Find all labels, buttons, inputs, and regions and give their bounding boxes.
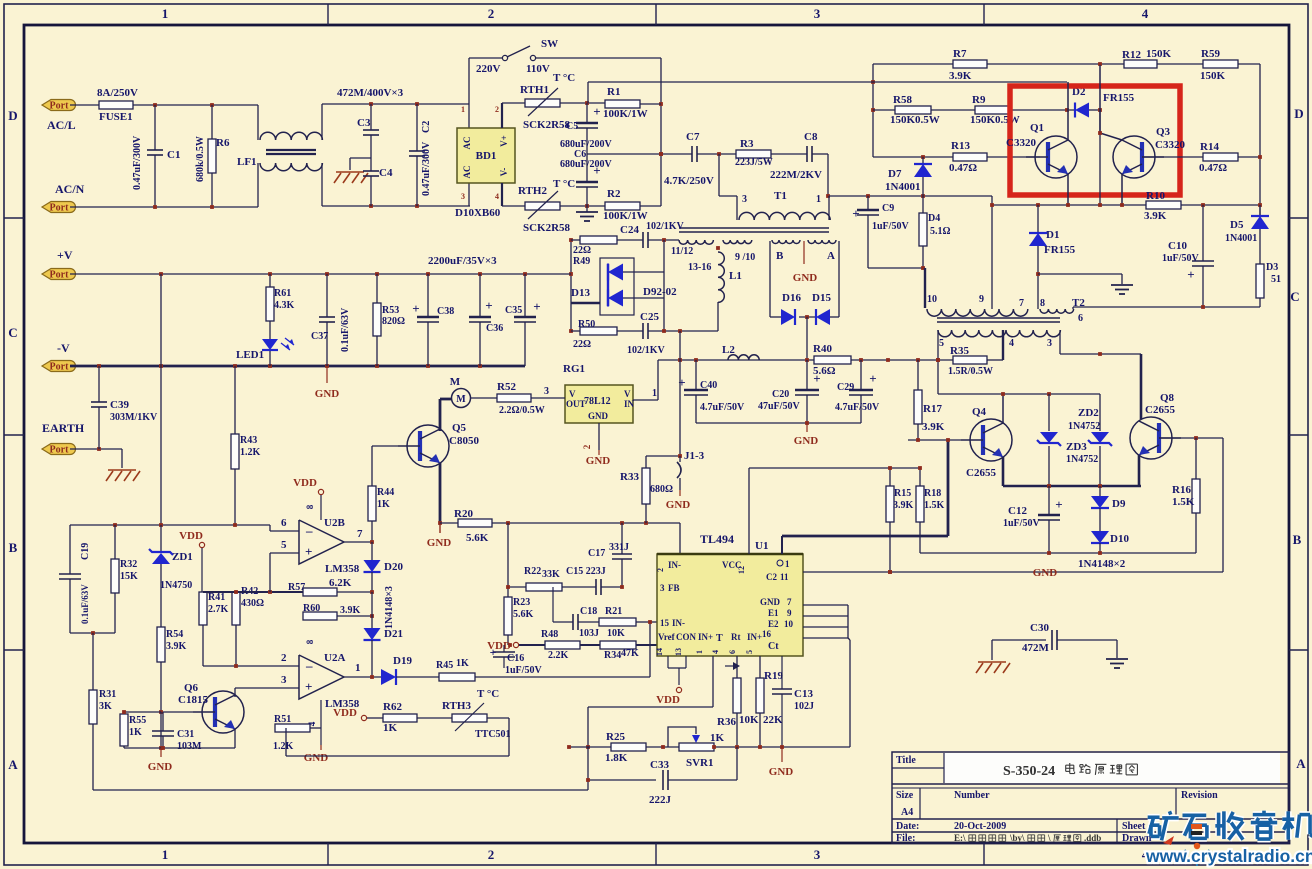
svg-text:680Ω: 680Ω: [650, 484, 673, 495]
svg-text:C20: C20: [772, 389, 789, 400]
svg-text:1.2K: 1.2K: [240, 447, 261, 458]
wire RG1 VIN pin1: [633, 399, 658, 401]
transformer T1 core: [679, 227, 829, 229]
resistor R49: [571, 239, 580, 241]
svg-text:R19: R19: [764, 670, 783, 682]
svg-text:C36: C36: [486, 323, 503, 334]
output rail y360: [658, 359, 953, 361]
svg-text:AC/N: AC/N: [55, 182, 85, 196]
svg-text:223J/5W: 223J/5W: [735, 157, 773, 168]
capacitor C20: [806, 360, 808, 390]
svg-text:C35: C35: [505, 305, 522, 316]
svg-text:16: 16: [762, 629, 772, 639]
transformer T2 primary winding 10-9-7: [927, 309, 1028, 316]
svg-text:IN-: IN-: [668, 560, 681, 570]
emitter row y486 thick: [1003, 485, 1141, 488]
svg-text:3: 3: [742, 194, 747, 205]
U2A pin2 wire: [203, 665, 299, 667]
svg-text:1.8K: 1.8K: [605, 752, 628, 764]
svg-text:R45: R45: [436, 660, 453, 671]
wire R45 to TL494 pin15: [475, 676, 650, 678]
margin tick marks: [327, 4, 329, 25]
transformer T2 primary winding 8: [1040, 309, 1074, 313]
svg-text:FUSE1: FUSE1: [99, 111, 133, 123]
capacitor C31: [162, 712, 164, 731]
svg-text:D10: D10: [1110, 533, 1129, 545]
svg-text:RTH2: RTH2: [518, 185, 547, 197]
VDD node above R41: [199, 542, 204, 547]
svg-text:C5: C5: [566, 121, 578, 132]
resistor D4: [919, 213, 927, 246]
svg-text:U1: U1: [755, 540, 768, 552]
svg-text:A4: A4: [901, 807, 913, 818]
svg-text:J1-3: J1-3: [684, 450, 705, 462]
wire R34 to TL494: [636, 644, 657, 646]
svg-text:R41: R41: [208, 592, 225, 603]
svg-text:C38: C38: [437, 306, 454, 317]
svg-text:+: +: [869, 371, 876, 386]
svg-text:L1: L1: [729, 270, 742, 282]
capacitor C25: [617, 330, 643, 332]
svg-text:FR155: FR155: [1103, 92, 1135, 104]
svg-text:1uF/50V: 1uF/50V: [1003, 518, 1040, 529]
resistor R51: [275, 724, 310, 732]
svg-text:–: –: [305, 658, 313, 673]
svg-text:1: 1: [162, 6, 169, 21]
U2B pin5 wire: [270, 552, 299, 554]
resistor R23: [504, 597, 512, 635]
wire pin6 link up to C19 rail: [269, 525, 271, 531]
common-mode choke LF1: [257, 105, 259, 140]
transformer T1 secondary winding 9/10: [723, 240, 752, 244]
svg-text:R3: R3: [740, 138, 754, 150]
svg-text:Rt: Rt: [731, 632, 741, 642]
svg-text:4: 4: [711, 650, 720, 654]
transistor Q4: [970, 419, 1012, 461]
svg-text:C: C: [1290, 289, 1299, 304]
svg-text:11: 11: [780, 572, 789, 582]
C19 top rail: [70, 524, 270, 526]
svg-text:R54: R54: [166, 629, 183, 640]
earth ground at C3/C4 node: [350, 157, 371, 159]
wire R58 to R9: [931, 109, 975, 111]
svg-text:C13: C13: [794, 688, 813, 700]
svg-text:Q6: Q6: [184, 682, 199, 694]
wire R7 to R12 row: [987, 63, 1124, 65]
wire BD1 V+ pin: [501, 103, 503, 128]
feedback bottom wire: [286, 755, 509, 757]
capacitor C12: [1048, 486, 1050, 515]
svg-text:E2: E2: [768, 619, 779, 629]
title block grid lines: [892, 783, 1289, 785]
resistor R41: [199, 592, 207, 625]
svg-text:2200uF/35V×3: 2200uF/35V×3: [428, 255, 497, 267]
svg-text:2: 2: [582, 444, 592, 449]
watermark logo kuang-shi-shou-yin-ji: [1148, 814, 1160, 821]
Q6 collector wire: [234, 688, 236, 697]
wire Q3 base to R14: [1142, 156, 1203, 158]
svg-text:E:\: E:\: [954, 833, 966, 843]
svg-text:GND: GND: [769, 766, 794, 778]
svg-text:1.5K: 1.5K: [924, 500, 945, 511]
svg-text:222J: 222J: [649, 794, 672, 806]
svg-text:7: 7: [357, 528, 363, 540]
svg-text:R50: R50: [578, 319, 595, 330]
svg-text:C3: C3: [357, 117, 371, 129]
resistor R15: [889, 468, 891, 486]
TL494 right pin stubs to bus: [803, 604, 848, 606]
wire D3/C10 bottom row: [1073, 306, 1260, 308]
capacitor C6: [586, 154, 588, 182]
resistor R2: [605, 202, 640, 210]
port EARTH: [42, 444, 76, 455]
svg-text:1K: 1K: [710, 732, 725, 744]
capacitor C5: [586, 103, 588, 123]
svg-text:3: 3: [1047, 338, 1052, 349]
svg-text:LM358: LM358: [325, 563, 360, 575]
svg-text:5: 5: [281, 539, 287, 551]
svg-text:+: +: [1187, 267, 1194, 282]
D13 common cathode bar link: [607, 264, 609, 306]
-V rail wire thick: [70, 365, 525, 368]
svg-text:T2: T2: [1072, 297, 1085, 309]
ground label under -V rail: [326, 366, 328, 383]
svg-text:9: 9: [787, 608, 792, 618]
svg-text:Vref: Vref: [658, 632, 676, 642]
svg-text:R23: R23: [513, 597, 530, 608]
svg-text:331J: 331J: [609, 542, 629, 553]
transformer T2 core: [937, 317, 1060, 319]
resistor R7: [873, 63, 953, 65]
wire R57 to diode chain: [337, 591, 372, 593]
VDD to R62: [361, 715, 366, 720]
svg-text:0.47Ω: 0.47Ω: [1199, 162, 1227, 174]
R25 row: [569, 746, 611, 748]
svg-text:B: B: [9, 540, 18, 555]
svg-text:C7: C7: [686, 131, 700, 143]
wire M to R52: [470, 397, 497, 399]
svg-text:33K: 33K: [542, 569, 560, 580]
svg-text:472M: 472M: [1022, 642, 1050, 654]
wire D7 chain to T2 pin10: [868, 267, 925, 269]
svg-text:GND: GND: [315, 388, 340, 400]
port AC/L: [42, 100, 76, 111]
capacitor C39: [98, 366, 100, 402]
svg-text:2: 2: [488, 847, 495, 862]
svg-text:103M: 103M: [177, 741, 202, 752]
svg-text:TL494: TL494: [700, 532, 734, 546]
svg-text:ZD3: ZD3: [1066, 441, 1087, 453]
TL494 pin4 wire: [736, 656, 738, 678]
wire R14 to vertical: [1238, 156, 1260, 158]
resistor R25: [611, 743, 646, 751]
svg-text:C4: C4: [379, 167, 393, 179]
svg-text:1K: 1K: [129, 727, 142, 738]
emitter row y205: [992, 204, 1146, 206]
svg-text:+: +: [593, 163, 600, 178]
svg-text:SCK2R58: SCK2R58: [523, 119, 571, 131]
resistor R32: [114, 525, 116, 559]
svg-text:D15: D15: [812, 292, 831, 304]
wire RTH2 to R2 row: [560, 205, 605, 207]
capacitor C1: [154, 105, 156, 150]
wire R13 to Q1 base: [987, 156, 1040, 158]
capacitor C8: [771, 153, 807, 155]
svg-text:C29: C29: [837, 382, 854, 393]
svg-text:1: 1: [355, 662, 361, 674]
svg-text:1uF/50V: 1uF/50V: [505, 665, 542, 676]
svg-text:680k/0.5W: 680k/0.5W: [195, 136, 206, 182]
resistor R9: [975, 106, 1009, 114]
capacitor C9: [867, 196, 869, 210]
svg-text:R34: R34: [604, 650, 621, 661]
svg-text:V: V: [624, 389, 631, 399]
svg-text:4.7K/250V: 4.7K/250V: [664, 175, 714, 187]
fuse FUSE1: [99, 101, 133, 109]
svg-text:FB: FB: [668, 583, 680, 593]
svg-text:R52: R52: [497, 381, 516, 393]
svg-text:680uF/200V: 680uF/200V: [560, 159, 612, 170]
inductor L2: [728, 355, 759, 360]
U2B VDD pin8: [318, 489, 323, 494]
svg-text:\: \: [1047, 833, 1051, 843]
dual diode D13 box: [600, 258, 634, 315]
thick row R41-R57: [203, 591, 303, 593]
svg-text:LF1: LF1: [237, 156, 257, 168]
svg-text:C8050: C8050: [449, 435, 479, 447]
resistor R21: [599, 618, 636, 626]
diode D9: [1099, 486, 1101, 496]
svg-text:D9: D9: [1112, 498, 1126, 510]
watermark orange accents: [1191, 824, 1202, 829]
R15 bottom link: [889, 522, 891, 572]
svg-text:VDD: VDD: [293, 477, 317, 489]
connector J1-3: [679, 331, 681, 456]
svg-text:U2B: U2B: [324, 517, 345, 529]
resistor R61: [269, 274, 271, 287]
wire D1 anode to chassis ground: [1036, 272, 1040, 276]
wire R10 to D5 node: [1181, 204, 1260, 206]
svg-text:C40: C40: [700, 380, 717, 391]
svg-text:R9: R9: [972, 94, 986, 106]
resistor R14: [1203, 153, 1238, 161]
TL494 pin13/14 wires to VDD: [667, 656, 669, 668]
wire R2 to 110V tap: [640, 205, 661, 207]
svg-text:GND: GND: [793, 272, 818, 284]
capacitor C33: [588, 779, 656, 781]
svg-text:www.crystalradio.cn: www.crystalradio.cn: [1145, 846, 1312, 866]
svg-text:SVR1: SVR1: [686, 757, 714, 769]
svg-text:C12: C12: [1008, 505, 1027, 517]
svg-text:VDD: VDD: [179, 530, 203, 542]
svg-text:C2655: C2655: [966, 467, 996, 479]
transformer T1 primary: [736, 196, 738, 212]
svg-text:IN+: IN+: [698, 632, 713, 642]
RG1 GND pin2: [598, 423, 600, 450]
svg-text:R21: R21: [605, 606, 622, 617]
svg-text:R12: R12: [1122, 49, 1141, 61]
svg-text:103J: 103J: [579, 628, 599, 639]
svg-text:1N4001: 1N4001: [1225, 233, 1257, 244]
svg-text:8: 8: [305, 504, 315, 509]
svg-text:.ddb: .ddb: [1084, 833, 1101, 843]
wire C8 to T1 pin1: [827, 154, 829, 196]
svg-text:+: +: [533, 299, 540, 314]
transistor Q8: [1130, 417, 1172, 459]
svg-text:V+: V+: [499, 135, 509, 147]
svg-text:15K: 15K: [120, 571, 138, 582]
wire AC/N to LF1 bottom: [70, 206, 258, 208]
row y394: [938, 393, 1100, 395]
capacitor C37: [326, 274, 328, 317]
svg-text:C31: C31: [177, 729, 194, 740]
wire D2 node down: [1099, 110, 1101, 205]
svg-text:BD1: BD1: [476, 150, 497, 162]
svg-text:1uF/50V: 1uF/50V: [1162, 253, 1199, 264]
svg-text:GND: GND: [304, 752, 329, 764]
wire base chain to R44: [371, 446, 373, 486]
C30 right signal ground: [1116, 640, 1118, 658]
svg-text:2.2Ω/0.5W: 2.2Ω/0.5W: [499, 405, 545, 416]
TL494 GND pin5 down: [781, 747, 783, 762]
svg-text:1: 1: [816, 194, 821, 205]
svg-text:220V: 220V: [476, 63, 501, 75]
svg-text:1: 1: [162, 847, 169, 862]
svg-text:10: 10: [927, 294, 937, 305]
svg-text:R43: R43: [240, 435, 257, 446]
svg-text:File:: File:: [896, 833, 915, 844]
svg-text:102/1KV: 102/1KV: [646, 221, 685, 232]
svg-text:0.47uF/300V: 0.47uF/300V: [421, 141, 432, 196]
diode D7: [922, 157, 924, 164]
wire +V rail feed vertical: [570, 240, 572, 331]
svg-text:GND: GND: [1033, 567, 1058, 579]
resistor R1: [605, 100, 640, 108]
svg-text:R13: R13: [951, 140, 970, 152]
svg-text:M: M: [450, 376, 461, 388]
svg-text:150K: 150K: [1146, 48, 1172, 60]
diode D13 upper: [607, 264, 609, 281]
svg-text:0.1uF/63V: 0.1uF/63V: [340, 307, 351, 352]
svg-text:Q3: Q3: [1156, 126, 1171, 138]
wire LF1 to bridge top rail: [322, 103, 469, 105]
svg-text:+: +: [1055, 497, 1062, 512]
svg-text:5: 5: [939, 338, 944, 349]
svg-text:C2: C2: [766, 572, 777, 582]
svg-text:6: 6: [1078, 313, 1083, 324]
svg-text:3.9K: 3.9K: [340, 605, 361, 616]
regulator RG1 78L12: [565, 385, 633, 423]
svg-text:C18: C18: [580, 606, 597, 617]
svg-text:ZD1: ZD1: [172, 551, 193, 563]
transformer T1 secondary winding 11/12: [679, 240, 713, 244]
svg-text:Drawn: Drawn: [1122, 833, 1152, 844]
svg-text:A: A: [8, 757, 18, 772]
svg-text:4: 4: [307, 721, 317, 726]
svg-text:15: 15: [660, 618, 670, 628]
resistor R43: [234, 366, 236, 434]
svg-text:D10XB60: D10XB60: [455, 207, 501, 219]
svg-text:+: +: [813, 371, 820, 386]
svg-text:1N4752: 1N4752: [1068, 421, 1100, 432]
svg-text:Size: Size: [896, 790, 914, 801]
ground at C6/R2 node: [586, 206, 588, 212]
svg-text:+: +: [852, 206, 859, 221]
svg-text:R60: R60: [303, 603, 320, 614]
wire +V to -V and bias chain vertical: [160, 274, 162, 525]
svg-text:8: 8: [305, 639, 315, 644]
diode D1: [1037, 205, 1039, 233]
svg-text:D1: D1: [1046, 229, 1059, 241]
svg-text:5: 5: [745, 650, 754, 654]
wire 110V tap down: [660, 58, 662, 206]
svg-text:11/12: 11/12: [671, 246, 693, 257]
svg-text:1K: 1K: [456, 658, 469, 669]
svg-text:R31: R31: [99, 689, 116, 700]
svg-text:78L12: 78L12: [584, 396, 611, 407]
resistor R36: [733, 678, 741, 713]
svg-text:C3320: C3320: [1006, 137, 1036, 149]
capacitor C29: [860, 360, 862, 390]
svg-text:LED1: LED1: [236, 349, 264, 361]
svg-text:13: 13: [674, 648, 683, 656]
svg-text:R49: R49: [573, 256, 590, 267]
resistor R40: [814, 356, 851, 364]
svg-text:ZD2: ZD2: [1078, 407, 1099, 419]
svg-text:Title: Title: [896, 755, 916, 766]
red highlight rectangle: [1010, 86, 1180, 195]
title strip white background: [944, 753, 1280, 783]
diode D20: [371, 542, 373, 560]
wire R20 GND row: [440, 522, 458, 524]
GND under Q6 row: [160, 748, 162, 757]
diode D21: [364, 628, 381, 640]
svg-text:1.2K: 1.2K: [273, 741, 294, 752]
svg-text:V-: V-: [499, 168, 509, 177]
svg-text:T: T: [716, 633, 723, 644]
port -V: [42, 361, 76, 372]
port AC/N: [42, 202, 76, 213]
svg-text:1: 1: [695, 650, 704, 654]
svg-text:D13: D13: [571, 287, 590, 299]
svg-text:1.5R/0.5W: 1.5R/0.5W: [948, 366, 993, 377]
resistor R3: [736, 150, 771, 158]
svg-text:4.7uF/50V: 4.7uF/50V: [700, 402, 745, 413]
svg-text:RTH3: RTH3: [442, 700, 471, 712]
wire R9 to D2: [1009, 109, 1075, 111]
transformer T2 secondary winding 5-4-3: [938, 330, 1060, 337]
resistor R6: [211, 105, 213, 139]
svg-text:–: –: [305, 523, 313, 538]
svg-text:D: D: [8, 108, 17, 123]
svg-text:R2: R2: [607, 188, 621, 200]
svg-text:0.1uF/63V: 0.1uF/63V: [80, 584, 90, 624]
transistor Q5: [407, 425, 449, 467]
wire R52 to RG1 pin3: [531, 397, 565, 399]
resistor R18: [919, 468, 921, 486]
svg-text:C17: C17: [588, 548, 605, 559]
svg-text:C8: C8: [804, 131, 818, 143]
resistor R12: [1124, 60, 1157, 68]
svg-text:2: 2: [495, 105, 499, 114]
svg-text:51: 51: [1271, 274, 1281, 285]
svg-text:AC/L: AC/L: [47, 118, 76, 132]
Q6 base wire: [161, 711, 193, 713]
svg-text:+: +: [305, 544, 312, 559]
wire T2 pin9 up to emitter row: [991, 196, 993, 309]
wire R35 to T2 pin4 thick: [987, 359, 1003, 361]
transistor Q6: [202, 691, 244, 733]
